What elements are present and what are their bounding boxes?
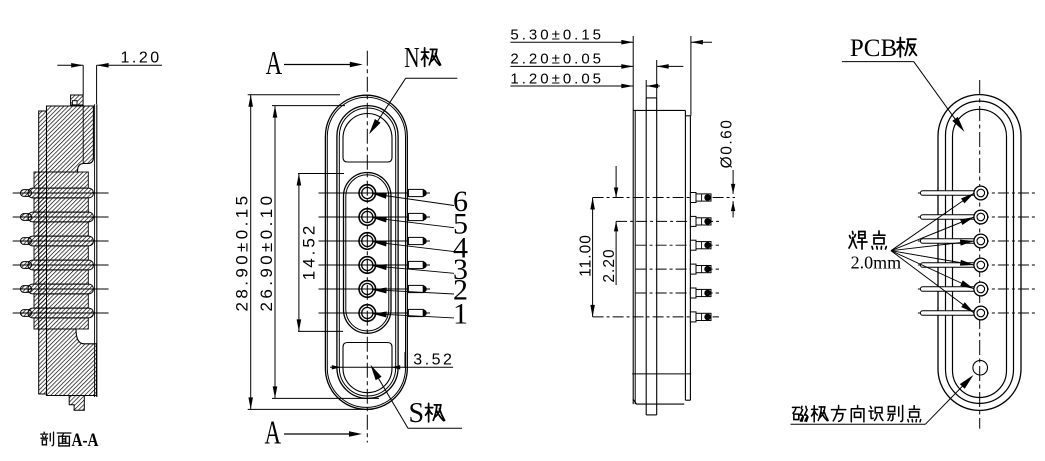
row centerline: [918, 264, 1037, 266]
row centerline: [593, 197, 735, 199]
leader pin 5: [373, 218, 454, 228]
leader pin 3: [373, 266, 454, 274]
svg-text:11.00: 11.00: [578, 234, 595, 277]
svg-text:Ø0.60: Ø0.60: [719, 119, 736, 169]
pin slot: [344, 173, 392, 334]
front view outer shell: [325, 95, 407, 409]
row line: [319, 192, 431, 194]
pogo pin 1 section: [21, 310, 32, 317]
row centerline: [918, 312, 1037, 314]
separator block: [34, 294, 88, 308]
dimension 2.20: [615, 166, 617, 198]
front view inner shell: [337, 106, 398, 399]
side pin 2: [690, 288, 696, 298]
right pin: [408, 189, 423, 196]
leader pin 6: [373, 194, 454, 206]
wire: [13, 216, 109, 218]
dimension 28.90±0.15: [248, 94, 340, 96]
solder point leader: [891, 193, 974, 251]
separator block: [34, 318, 88, 329]
centerline: [979, 80, 981, 429]
trace: [920, 287, 976, 292]
svg-text:5.30±0.15: 5.30±0.15: [510, 27, 604, 44]
wire: [13, 264, 109, 266]
row line: [319, 264, 431, 266]
svg-text:1: 1: [453, 298, 468, 331]
svg-text:2.0mm: 2.0mm: [851, 253, 902, 273]
solder pad 5: [974, 210, 988, 224]
pin 5: [359, 209, 376, 226]
S pole magnet window: [343, 343, 392, 393]
pogo pin 5 section: [21, 214, 32, 221]
right pin: [408, 213, 423, 220]
trace: [920, 191, 976, 196]
separator block: [34, 222, 88, 236]
pin 3: [359, 257, 376, 274]
PCB outline: [938, 95, 1021, 411]
svg-text:14.52: 14.52: [300, 223, 319, 281]
svg-text:PCB: PCB: [850, 35, 897, 62]
wire: [13, 312, 109, 314]
row centerline: [918, 192, 1037, 194]
row line: [319, 312, 431, 314]
pogo pin 2 section: [21, 286, 32, 293]
bottom block: [47, 329, 97, 396]
label 磁极方向识别点: [793, 406, 808, 421]
label 焊点 2.0mm: [849, 232, 867, 250]
solder point leader: [891, 251, 974, 313]
trace: [920, 311, 976, 316]
pin 4: [359, 233, 376, 250]
pin 1: [359, 305, 376, 322]
top block: [47, 106, 94, 172]
pin 6: [359, 185, 376, 202]
dimension 1.20: [57, 50, 162, 105]
row centerline: [636, 268, 719, 270]
dimension 3.52: [330, 366, 453, 368]
svg-text:N: N: [404, 43, 420, 74]
svg-text:A-A: A-A: [72, 430, 99, 451]
row line: [319, 240, 431, 242]
leader pin 2: [373, 290, 454, 294]
centerline: [366, 51, 368, 443]
wire: [13, 240, 109, 242]
svg-text:1.20: 1.20: [121, 50, 162, 67]
solder pad 2: [974, 282, 988, 296]
pogo pin 6 section: [21, 190, 32, 197]
side pin 5: [690, 216, 696, 226]
right pin: [408, 261, 423, 268]
row centerline: [636, 244, 719, 246]
wire: [13, 192, 109, 194]
solder pad 4: [974, 234, 988, 248]
row line: [319, 288, 431, 290]
leader pin 1: [373, 314, 454, 318]
svg-text:2.20: 2.20: [601, 248, 618, 282]
solder pad 1: [974, 306, 988, 320]
svg-text:2.20±0.05: 2.20±0.05: [510, 51, 604, 68]
side view body: [632, 98, 691, 415]
polarity mark circle: [973, 360, 988, 375]
wire: [13, 288, 109, 290]
right wall: [94, 104, 96, 397]
svg-text:28.90±0.15: 28.90±0.15: [233, 193, 252, 312]
row centerline: [636, 292, 719, 294]
row centerline: [918, 240, 1037, 242]
dimension 1.20±0.05: [510, 85, 633, 87]
top tab: [71, 95, 84, 105]
svg-text:1.20±0.05: 1.20±0.05: [510, 70, 604, 87]
side pin 6: [690, 193, 696, 203]
N pole magnet window: [343, 113, 392, 162]
solder point leader: [891, 241, 974, 251]
svg-text:3.52: 3.52: [413, 352, 454, 369]
trace: [920, 263, 976, 268]
svg-text:26.90±0.10: 26.90±0.10: [257, 193, 276, 312]
solder pad 3: [974, 258, 988, 272]
bottom tab: [69, 396, 84, 411]
separator block: [34, 198, 88, 212]
side pin 1: [690, 312, 696, 322]
trace: [920, 215, 976, 220]
trace: [920, 239, 976, 244]
dimension 26.90±0.10: [272, 105, 345, 107]
side pin 4: [690, 240, 696, 250]
label 剖面A-A: [41, 430, 99, 451]
row centerline: [593, 316, 719, 318]
row centerline: [918, 288, 1037, 290]
solder point leader: [891, 217, 974, 251]
right pin: [408, 309, 423, 316]
side pin 3: [690, 264, 696, 274]
right pin: [408, 285, 423, 292]
pin 2: [359, 281, 376, 298]
solder point leader: [891, 251, 974, 265]
solder point leader: [891, 251, 974, 289]
svg-text:S: S: [409, 398, 425, 429]
svg-text:A: A: [265, 415, 282, 452]
pogo pin 4 section: [21, 238, 32, 245]
separator block: [34, 246, 88, 260]
left strip: [39, 111, 47, 394]
dimension 11.00: [592, 198, 594, 317]
separator block: [34, 270, 88, 284]
dimension 14.52: [298, 173, 344, 175]
dimension 5.30±0.15: [510, 41, 633, 43]
pogo pin 3 section: [21, 262, 32, 269]
row line: [319, 216, 431, 218]
svg-text:A: A: [266, 45, 283, 82]
section view A-A body: [13, 95, 109, 410]
row centerline: [616, 220, 719, 222]
separator block: [34, 172, 88, 188]
leader pin 4: [373, 242, 454, 252]
dimension 2.20±0.05: [510, 65, 633, 67]
right pin: [408, 237, 423, 244]
row centerline: [918, 216, 1037, 218]
solder pad 6: [974, 186, 988, 200]
